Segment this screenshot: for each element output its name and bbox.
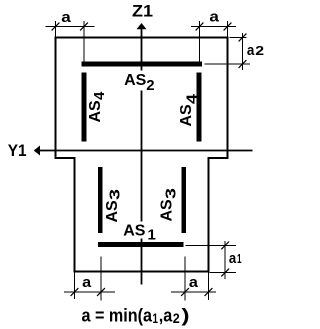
dimension a top-right: extension line at flange right edge: [227, 21, 229, 37]
dimension a top-left: extension line at flange left edge: [55, 21, 57, 37]
svg-text:AS: AS: [87, 100, 104, 123]
dimension a bottom-left: tick 2: [97, 288, 105, 296]
svg-text:AS: AS: [104, 200, 121, 223]
svg-text:4: 4: [91, 91, 108, 100]
svg-text:a: a: [82, 274, 92, 291]
dimension a1: tick 1: [221, 242, 229, 250]
svg-text:a = min(a: a = min(a: [82, 306, 153, 326]
svg-text:1: 1: [153, 310, 159, 326]
dimension a bottom-right: extension line at AS3 bar axis: [184, 257, 186, 301]
dimension a bottom-left: extension line at web left edge: [74, 273, 76, 300]
svg-text:AS: AS: [124, 72, 147, 89]
dimension a top-left: tick 1: [52, 23, 60, 31]
rebar AS3 right (vertical bar): [182, 167, 187, 233]
axis Z1 arrowhead: [137, 23, 147, 29]
section outline (T-shape): [56, 38, 228, 272]
dimension a top-right: tick 1: [196, 23, 204, 31]
svg-text:,a: ,a: [159, 306, 173, 326]
svg-text:Y1: Y1: [8, 141, 27, 160]
svg-text:1: 1: [148, 227, 156, 244]
dimension a bottom-left: tick 1: [71, 288, 79, 296]
svg-text:): ): [182, 306, 190, 326]
svg-text:AS: AS: [123, 223, 146, 240]
svg-text:4: 4: [184, 93, 201, 104]
svg-text:AS: AS: [159, 199, 176, 222]
dimension a top-left: tick 2: [80, 23, 88, 31]
rebar AS4 right (vertical bar): [197, 73, 202, 142]
svg-text:3: 3: [107, 189, 124, 200]
dimension a top-right: tick 2: [224, 23, 232, 31]
axis Z1 line: [141, 27, 143, 285]
svg-text:a: a: [61, 9, 71, 26]
dimension a1: tick 2: [221, 269, 229, 277]
svg-text:a: a: [209, 9, 219, 26]
rebar AS2 (top horizontal bar): [82, 62, 202, 67]
rebar AS4 left (vertical bar): [82, 73, 87, 142]
dimension a bottom-right: tick 1: [181, 288, 189, 296]
rebar AS3 left (vertical bar): [98, 167, 103, 233]
dimension a2: bottom extension line: [205, 63, 251, 65]
svg-text:2: 2: [173, 310, 180, 326]
dimension a top-right: extension line at AS4 bar axis: [199, 21, 201, 62]
dimension a1: bottom extension line: [210, 272, 237, 274]
svg-text:2: 2: [146, 77, 154, 94]
dimension a bottom-left: dimension line: [64, 291, 115, 293]
svg-text:2: 2: [255, 43, 264, 58]
svg-text:3: 3: [162, 188, 179, 199]
svg-text:a: a: [229, 250, 237, 267]
dimension a1: top extension line: [186, 244, 237, 246]
dimension a bottom-right: dimension line: [171, 291, 216, 293]
label AS2 halo: [122, 71, 159, 91]
svg-text:a: a: [189, 274, 199, 291]
label AS1 halo: [122, 222, 155, 239]
dimension a1: dimension line: [224, 241, 226, 279]
dimension a2: top extension line: [230, 37, 247, 39]
svg-text:Z1: Z1: [132, 2, 153, 21]
dimension a2: tick 1: [239, 34, 247, 42]
dimension a top-left: extension line at AS4 bar axis: [83, 21, 85, 62]
dimension a bottom-right: extension line at web right edge: [208, 273, 210, 301]
dimension a2: dimension line: [242, 33, 244, 70]
rebar AS1 (bottom horizontal bar): [98, 242, 184, 247]
axis Y1 arrowhead: [34, 146, 40, 156]
svg-text:a: a: [247, 42, 255, 59]
dimension a bottom-right: tick 2: [205, 288, 213, 296]
dimension a top-left: dimension line: [46, 26, 95, 28]
dimension a2: tick 2: [239, 60, 247, 68]
svg-text:1: 1: [237, 251, 242, 266]
svg-text:AS: AS: [178, 104, 195, 127]
dimension a top-right: dimension line: [191, 26, 236, 28]
dimension a bottom-left: extension line at AS3 bar axis: [100, 257, 102, 301]
axis Y1 line: [35, 150, 253, 152]
